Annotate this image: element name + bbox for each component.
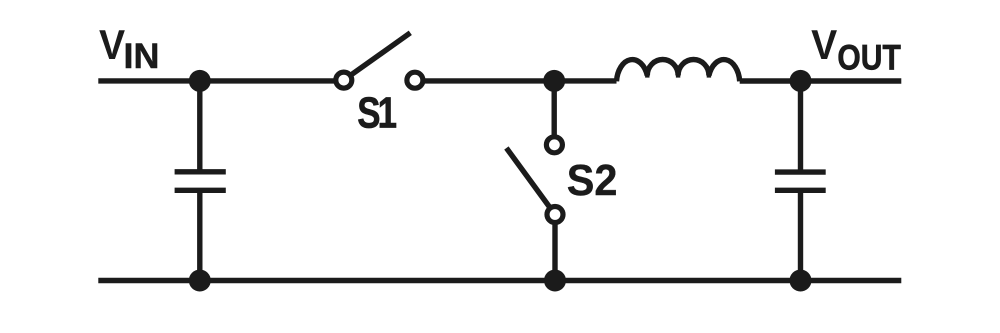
svg-text:S1: S1 (357, 89, 396, 138)
svg-text:V: V (99, 21, 125, 68)
svg-text:V: V (811, 21, 837, 68)
svg-text:IN: IN (124, 36, 160, 75)
svg-text:OUT: OUT (837, 37, 900, 77)
svg-text:S2: S2 (567, 156, 618, 205)
